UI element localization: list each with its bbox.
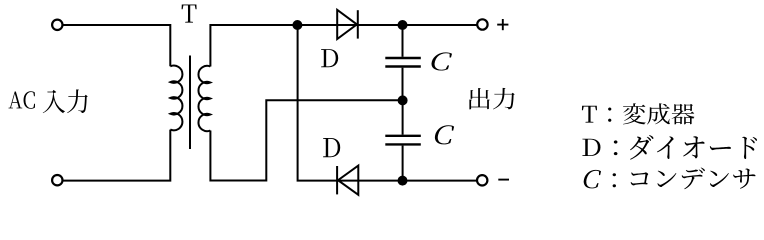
transformer T secondary winding (198, 66, 210, 131)
diode D1 (top, anode left) (337, 10, 358, 39)
capacitor C2 (leads and plates) (385, 100, 421, 180)
label: + sign (497, 19, 508, 30)
terminal: AC input bottom (open circle) (52, 175, 62, 185)
terminal: AC input top (open circle) (52, 20, 62, 30)
terminal: + output (open circle) (477, 19, 487, 29)
capacitor C1 (leads and plates) (385, 25, 421, 100)
label: T (transformer) (182, 4, 197, 22)
label: 出力 (output) (469, 88, 514, 110)
node: bottom rail junction dot (C2 bottom) (398, 176, 408, 186)
transformer core (189, 56, 191, 150)
wire: secondary bottom lead to capacitor midpoint (crossover) (210, 100, 402, 180)
legend: T：変成器 (582, 103, 695, 124)
label: C (capacitor 2, italic) (435, 125, 454, 144)
diode D2 (bottom, anode right) (337, 166, 358, 195)
legend: D：ダイオード (582, 135, 757, 160)
node: capacitor midpoint junction dot (398, 95, 408, 105)
label: - sign (498, 179, 509, 181)
wire: transformer primary bottom lead to AC input bottom (63, 130, 170, 181)
node B: junction dot (+ rail, C1 top) (398, 20, 408, 30)
wire: AC input top lead to transformer primary (63, 25, 170, 66)
wire: secondary top lead and top rail to + terminal (210, 25, 477, 67)
wire: node A down and bottom rail to - terminal (298, 25, 478, 181)
label: AC (input text) (9, 91, 35, 109)
node A: junction dot (secondary top / diodes) (292, 20, 302, 30)
label: D (bottom diode) (323, 138, 340, 157)
label: 入力 (input) (43, 89, 88, 113)
legend: C：コンデンサ (584, 168, 756, 190)
transformer T primary winding (170, 66, 182, 131)
label: D (top diode) (321, 49, 338, 67)
terminal: - output (open circle) (477, 175, 487, 185)
label: C (capacitor 1, italic) (431, 52, 452, 70)
